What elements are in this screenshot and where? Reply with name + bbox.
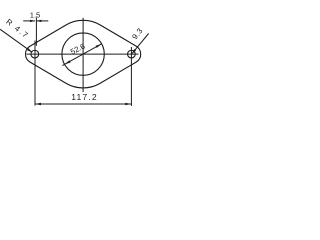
- horizontal centerline: [27, 53, 139, 55]
- arrowhead 117.2 right: [125, 103, 131, 106]
- dim line 52.6: [62, 44, 102, 66]
- vertical centerline: [82, 18, 84, 92]
- arrowhead 52.6 lower-left: [65, 60, 71, 64]
- arrowhead 1.5 right: [36, 20, 41, 22]
- svg-text:117.2: 117.2: [71, 92, 98, 102]
- bolt hole left: [31, 50, 39, 58]
- arrowhead 52.6 upper-right: [96, 44, 102, 48]
- svg-text:1.5: 1.5: [30, 11, 41, 20]
- left extension line: [34, 41, 36, 106]
- gasket outline: [26, 20, 141, 88]
- leader R4.7: [0, 29, 32, 52]
- bolt hole right: [128, 50, 136, 58]
- dim line 1.5 left: [23, 20, 35, 22]
- dim line 117.2: [35, 103, 132, 105]
- arrowhead leader 9.3: [132, 49, 136, 54]
- arrowhead leader R4.7: [27, 48, 32, 52]
- extension line 1.5: [35, 17, 37, 45]
- dim line 1.5 right: [36, 20, 48, 22]
- arrowhead 117.2 left: [35, 103, 41, 106]
- arrowhead 1.5 left: [30, 20, 35, 22]
- leader 9.3: [132, 34, 149, 54]
- bore circle 52.6: [62, 33, 104, 75]
- right extension line: [130, 47, 132, 106]
